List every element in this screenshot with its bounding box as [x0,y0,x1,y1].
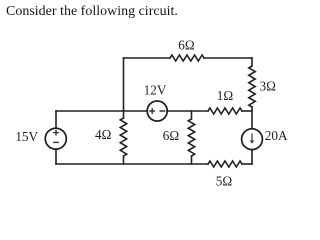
wire right vertical (3ohm to middle bus junction to 20A source) [251,107,253,129]
wire bottom bus left segment [56,163,208,165]
svg-text:6Ω: 6Ω [178,38,195,53]
resistor R 6ohm (top) [170,55,204,61]
wire bottom bus right segment [242,163,252,165]
svg-text:6Ω: 6Ω [163,128,180,143]
wire left inner vertical (node B down to middle bus) [123,58,125,111]
wire middle bus left segment (15V+ to 12V source) [56,110,147,112]
resistor R 4ohm [120,118,126,156]
wire middle bus (12V to 1ohm) [167,110,208,112]
svg-text:12V: 12V [144,83,167,98]
resistor R 3ohm [249,66,255,107]
wire left branch lower (15V to bottom bus) [55,149,57,164]
resistor R 5ohm [208,161,242,167]
title text [6,4,178,20]
svg-text:5Ω: 5Ω [216,174,233,189]
resistor R 6ohm (middle) [188,119,194,156]
voltage source 12V [147,101,167,121]
resistor R 1ohm [208,108,242,114]
svg-text:4Ω: 4Ω [95,127,112,142]
wire left branch upper (middle bus to 15V source) [55,111,57,128]
wire right vertical lower (20A to bottom bus) [251,150,253,165]
wire middle bus right end to node C branch [242,110,252,112]
svg-text:15V: 15V [15,129,38,144]
wire top: node B to node C [124,57,253,59]
voltage source 15V [45,128,66,149]
svg-text:20A: 20A [265,128,288,143]
wire 4ohm branch stub [123,111,125,164]
svg-text:1Ω: 1Ω [217,88,234,103]
wire 6ohm mid branch stub [191,111,193,164]
svg-text:3Ω: 3Ω [260,79,277,94]
wire right vertical upper (node C to 3ohm) [251,58,253,66]
current source 20A [242,129,263,150]
